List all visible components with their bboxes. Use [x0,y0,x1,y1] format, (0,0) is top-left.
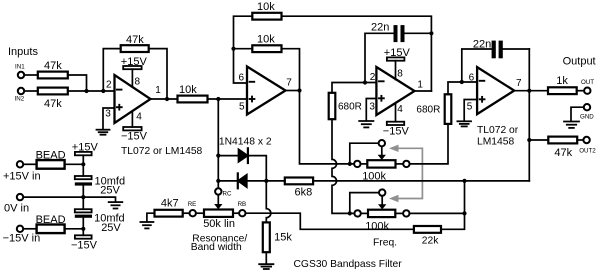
svg-text:22n: 22n [473,38,491,50]
capacitor 22n (U2b feedback) [462,38,530,82]
junction [84,89,88,93]
svg-text:6: 6 [469,73,475,84]
svg-text:7: 7 [286,78,292,89]
svg-text:+15V: +15V [72,141,99,153]
potentiometer 100k (Freq, upper) [348,140,410,183]
wire diode net down with hop, to 15k [266,181,271,223]
svg-text:RC: RC [223,190,232,197]
resistor 47k (OUT2) [548,137,577,144]
ground U1a pin3 [97,130,110,135]
junction op2 output [297,88,301,92]
-15V supply U2a pin4 [383,104,410,138]
resistor 4k7 [155,210,183,217]
wire [196,212,204,214]
ground (15k) [259,252,273,269]
svg-text:47k: 47k [44,98,62,110]
wire [233,212,239,214]
svg-text:6: 6 [239,73,245,84]
junction U2a pin2 node [363,80,367,84]
junction diode net [264,179,268,183]
resistor 15k [263,222,270,252]
svg-text:4k7: 4k7 [161,198,179,210]
wire top rail to U2a output [282,16,432,91]
ganged-pot link (gray) [398,148,423,198]
terminal +15V in [17,161,23,167]
terminal RC (pot wiper) [215,188,221,194]
wire U2b output [514,90,548,92]
svg-text:680R: 680R [338,102,362,113]
resistor 6k8 [285,178,313,185]
svg-text:RB: RB [238,201,247,208]
svg-text:+15V in: +15V in [3,171,41,183]
resistor 47k (IN1) [38,72,68,79]
pot wiper arrow RC [214,195,222,209]
wire [266,180,285,182]
wire U2b output column [528,49,530,181]
ferrite bead (negative rail) [37,225,65,234]
svg-text:1N4148 x 2: 1N4148 x 2 [219,137,272,148]
wire [24,74,37,76]
diode D1 [218,148,266,181]
svg-text:OUT2: OUT2 [579,147,596,154]
+15V supply U2a pin8 [384,47,411,80]
wire [282,49,300,91]
junction node N2 [231,47,235,51]
potentiometer 50k lin (Resonance) [204,210,233,217]
svg-text:10k: 10k [257,33,275,45]
junction D2 [216,179,220,183]
svg-text:47k: 47k [44,60,62,72]
svg-text:Freq.: Freq. [373,237,397,248]
svg-text:LM1458: LM1458 [477,136,514,147]
wire GND to ground [571,107,584,121]
svg-text:50k lin: 50k lin [203,218,235,230]
junction [527,89,531,93]
wire op2 output [286,90,300,92]
svg-text:BEAD: BEAD [36,214,66,226]
wire RB to bottom rail [246,213,414,229]
ganged-pot arrow 1 [389,145,399,152]
svg-text:100k: 100k [365,221,389,233]
junction OUT2 tap [527,138,531,142]
ground (0V) [109,202,123,208]
capacitor 10mfd (negative rail) [75,197,125,234]
ground (resonance pot end) [140,213,154,228]
svg-text:8: 8 [135,77,141,88]
terminal RB [239,210,245,216]
capacitor 10mfd (positive rail) [75,164,125,197]
svg-text:4: 4 [136,112,142,123]
svg-text:10k: 10k [257,1,275,13]
+15V rail symbol [72,141,99,164]
svg-text:GND: GND [580,114,594,121]
svg-text:25V: 25V [101,222,121,234]
wire [24,90,37,92]
svg-text:OUT: OUT [581,79,594,86]
op-amp U2a [376,67,414,115]
-15V rail symbol [71,229,98,252]
wire OUT2 row [529,139,548,141]
wire [149,49,167,99]
svg-text:−15V: −15V [71,239,98,251]
potentiometer 100k (Freq, lower) [348,189,410,248]
+15V supply U1a pin8 [131,69,133,87]
ganged-pot arrow 2 [389,195,399,202]
wire feedback [103,49,120,91]
ground (GND terminal) [564,122,579,128]
wire 680R bottom with hops to pot 2 [332,119,354,213]
resistor 1k [548,87,577,94]
ferrite bead (positive rail) [37,160,65,169]
wire U2a output [415,90,432,92]
svg-text:+15V: +15V [384,47,411,59]
svg-text:CGS30 Bandpass Filter: CGS30 Bandpass Filter [294,259,403,270]
terminal OUT [584,88,590,94]
svg-text:8: 8 [397,68,403,79]
wire [65,163,84,165]
wire [68,75,87,91]
-15V supply U1a pin4 [131,111,133,127]
svg-text:TL072 or: TL072 or [477,125,519,136]
wire [577,90,584,92]
svg-text:6k8: 6k8 [295,186,313,198]
wire [208,98,248,100]
svg-text:1: 1 [155,85,161,96]
wire 680R bottom to pot1 right [410,124,448,164]
wire op1 output [151,98,178,100]
junction [81,195,85,199]
wire [183,212,190,214]
wire node to diode ladder [217,99,219,188]
svg-text:3: 3 [105,108,111,119]
svg-text:10k: 10k [179,84,197,96]
terminal RE [190,210,196,216]
svg-text:47k: 47k [554,147,572,159]
wire pin3 [103,108,115,130]
terminal -15V in [17,226,23,232]
svg-text:1k: 1k [556,75,568,87]
wire [23,163,36,165]
svg-text:100k: 100k [362,171,386,183]
junction [165,97,169,101]
terminal GND [584,104,590,110]
terminal 0V in [17,194,23,200]
capacitor 22n (U2a feedback) [365,21,431,82]
svg-text:TL072 or LM1458: TL072 or LM1458 [121,146,203,157]
svg-text:2: 2 [106,80,112,91]
terminal IN1 [18,72,24,78]
junction 22n tap [429,31,433,35]
svg-text:5: 5 [239,102,245,113]
svg-text:IN1: IN1 [15,64,25,71]
svg-text:25V: 25V [100,185,120,197]
resistor 680R (right integrator input) [445,94,452,124]
wire 0V rail [23,197,115,202]
junction node to diodes [216,97,220,101]
wire 680R top to U2a pin2 [332,83,376,93]
terminal OUT2 [583,137,589,143]
svg-text:−15V in: −15V in [3,232,41,244]
resistor 47k (IN2) [38,88,68,95]
resistor 22k [414,226,441,233]
junction [462,179,466,183]
svg-text:22k: 22k [422,236,439,247]
wire [65,228,84,230]
svg-text:15k: 15k [274,232,292,244]
wire 680R top to U2b pin6 [448,82,477,94]
op-amp U1b [247,67,286,115]
op-amp U2b [477,67,514,114]
svg-text:2: 2 [370,72,376,83]
ground U2b pin5 [457,100,477,127]
junction D1 [216,154,220,158]
wire 22k to riser [441,181,465,229]
svg-text:7: 7 [516,78,522,89]
svg-text:RE: RE [188,201,197,208]
junction [81,227,85,231]
diode D2 [218,173,266,188]
svg-text:680R: 680R [416,104,440,115]
svg-text:Inputs: Inputs [8,46,38,58]
svg-text:Output: Output [563,56,596,68]
wire op2 output down to pot 1 [300,91,354,164]
resistor 680R (left integrator input) [329,93,336,119]
resistor 47k (U1a feedback) [121,45,149,52]
wire pin6 [234,16,253,83]
resistor 10k (U1b feedback inner) [234,33,282,52]
svg-text:1: 1 [417,80,423,91]
svg-text:22n: 22n [371,21,389,33]
svg-text:BEAD: BEAD [36,150,66,162]
junction [462,211,466,215]
junction U2b pin6 node [460,80,464,84]
svg-text:0V in: 0V in [4,202,29,214]
svg-text:4: 4 [397,104,403,115]
svg-text:−15V: −15V [121,131,148,143]
svg-text:5: 5 [467,101,473,112]
svg-text:IN2: IN2 [15,95,25,102]
ground U2a pin3 [359,99,376,128]
junction [101,89,105,93]
wire pot2 right to riser [410,212,465,214]
svg-text:Band width: Band width [191,242,242,253]
wire 6k8 row to U2b output column [313,180,529,182]
resistor 10k (stage coupling) [178,96,208,103]
wire [577,139,583,141]
junction [81,162,85,166]
wire [23,228,36,230]
svg-text:−15V: −15V [383,126,410,138]
svg-text:47k: 47k [126,34,144,46]
svg-text:3: 3 [369,102,375,113]
op-amp U1a [115,75,151,123]
terminal IN2 [18,88,24,94]
wire [68,90,115,92]
resistor 10k (U1b feedback outer, top) [252,1,281,20]
svg-text:+15V: +15V [121,56,148,68]
